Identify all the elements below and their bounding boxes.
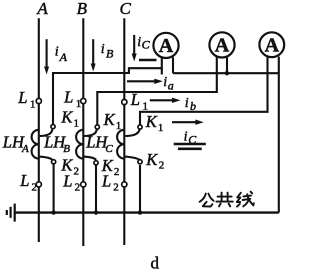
svg-text:i: i xyxy=(101,42,105,57)
CT coil LHC primary bumps xyxy=(117,130,124,159)
svg-text:2: 2 xyxy=(114,166,120,178)
svg-text:1: 1 xyxy=(76,98,82,110)
wire row C from K1C to ammeter3 xyxy=(140,57,268,126)
wire row A from K1A to ammeter1 xyxy=(53,58,162,127)
svg-text:i: i xyxy=(184,129,188,144)
svg-text:K: K xyxy=(145,150,158,169)
svg-text:1: 1 xyxy=(158,122,164,134)
svg-text:b: b xyxy=(190,99,196,113)
svg-text:A: A xyxy=(159,35,174,57)
terminal L2 B xyxy=(81,182,86,187)
svg-text:K: K xyxy=(145,112,158,131)
svg-text:A: A xyxy=(21,143,29,155)
phase line C xyxy=(123,18,125,245)
svg-text:1: 1 xyxy=(116,120,122,132)
ammeter U3 xyxy=(259,32,284,57)
svg-text:2: 2 xyxy=(74,165,80,177)
terminal L2 A xyxy=(36,182,41,187)
wire K2C to common line xyxy=(139,165,141,213)
wire ammeter1 right leg to common wire xyxy=(172,57,174,73)
svg-text:K: K xyxy=(103,110,116,129)
CT LHB secondary lead K1 xyxy=(84,129,97,136)
svg-text:K: K xyxy=(60,108,73,127)
junction dot K2A xyxy=(51,210,55,214)
common wire top xyxy=(173,72,279,74)
svg-text:i: i xyxy=(163,75,167,90)
svg-text:C: C xyxy=(188,132,197,146)
svg-text:L: L xyxy=(101,171,111,190)
svg-text:i: i xyxy=(185,96,189,111)
wire K2B to common line xyxy=(95,165,97,213)
svg-text:A: A xyxy=(265,34,280,56)
svg-text:A: A xyxy=(215,35,230,57)
svg-text:1: 1 xyxy=(30,98,36,110)
terminal K2 C xyxy=(138,160,142,164)
CT LHA secondary lead K1 xyxy=(40,129,53,136)
arrow ib xyxy=(150,98,181,103)
svg-text:B: B xyxy=(77,0,88,18)
CT LHC secondary lead K1 xyxy=(125,129,139,136)
ammeter U1 xyxy=(153,33,178,58)
CT coil LHA primary bumps xyxy=(32,130,39,159)
svg-text:C: C xyxy=(105,143,113,155)
svg-text:B: B xyxy=(63,143,70,155)
terminal K1 A xyxy=(51,125,55,129)
terminal L1 B xyxy=(81,98,86,103)
svg-text:d: d xyxy=(151,254,160,273)
terminal K1 B xyxy=(95,125,99,129)
phase line A xyxy=(38,18,40,242)
wire ammeter3 right leg down to common line xyxy=(278,57,280,213)
svg-text:2: 2 xyxy=(113,182,119,194)
CT coil LHB primary bumps xyxy=(76,130,83,159)
svg-text:1: 1 xyxy=(143,100,149,112)
char xian (wire) xyxy=(237,192,254,207)
junction dot K2B xyxy=(94,210,98,214)
arrow iC xyxy=(132,35,137,62)
svg-text:L: L xyxy=(19,171,29,190)
svg-text:A: A xyxy=(59,50,68,64)
arrow iB xyxy=(91,39,96,71)
wire row B from K1B to ammeter2 xyxy=(97,57,217,126)
ground xyxy=(7,204,15,222)
dash under iC label xyxy=(139,59,157,61)
svg-text:C: C xyxy=(142,37,151,51)
svg-text:1: 1 xyxy=(74,117,80,129)
svg-text:2: 2 xyxy=(159,160,165,172)
phase line B xyxy=(82,18,84,246)
char gong2 (together) xyxy=(216,193,232,207)
arrow iA xyxy=(44,39,49,74)
wire K2A to common line xyxy=(53,164,55,213)
svg-text:L: L xyxy=(17,88,27,107)
arrow ic secondary xyxy=(172,120,204,125)
svg-text:B: B xyxy=(106,47,114,61)
CT LHC secondary lead K2 xyxy=(125,157,140,160)
double underline under ic xyxy=(174,143,206,146)
terminal K2 A xyxy=(52,160,56,164)
terminal L1 A xyxy=(36,98,41,103)
terminal L2 C xyxy=(122,182,127,187)
char gong1 (public) xyxy=(200,194,214,207)
common line bottom xyxy=(15,211,279,213)
svg-text:i: i xyxy=(55,44,59,59)
svg-text:L: L xyxy=(63,88,73,107)
label gongongxian (common line) hand-drawn xyxy=(200,192,254,207)
terminal K2 B xyxy=(94,161,98,165)
junction dot K2C xyxy=(138,210,142,214)
svg-text:a: a xyxy=(168,78,174,92)
CT LHA secondary lead K2 xyxy=(39,157,52,160)
svg-text:A: A xyxy=(36,0,48,18)
svg-text:L: L xyxy=(62,171,72,190)
junction dot ammeter2 right leg xyxy=(225,71,229,75)
svg-text:C: C xyxy=(120,0,132,18)
wire ammeter1 left leg tail xyxy=(161,68,163,74)
terminal L1 C xyxy=(122,99,127,104)
ammeter U2 xyxy=(209,32,234,57)
svg-text:L: L xyxy=(130,90,140,109)
CT LHB secondary lead K2 xyxy=(84,157,96,160)
arrow ia xyxy=(127,79,163,84)
svg-text:2: 2 xyxy=(75,182,81,194)
terminal K1 C xyxy=(138,125,142,129)
svg-text:2: 2 xyxy=(32,182,38,194)
wire ammeter2 right leg xyxy=(226,57,228,73)
